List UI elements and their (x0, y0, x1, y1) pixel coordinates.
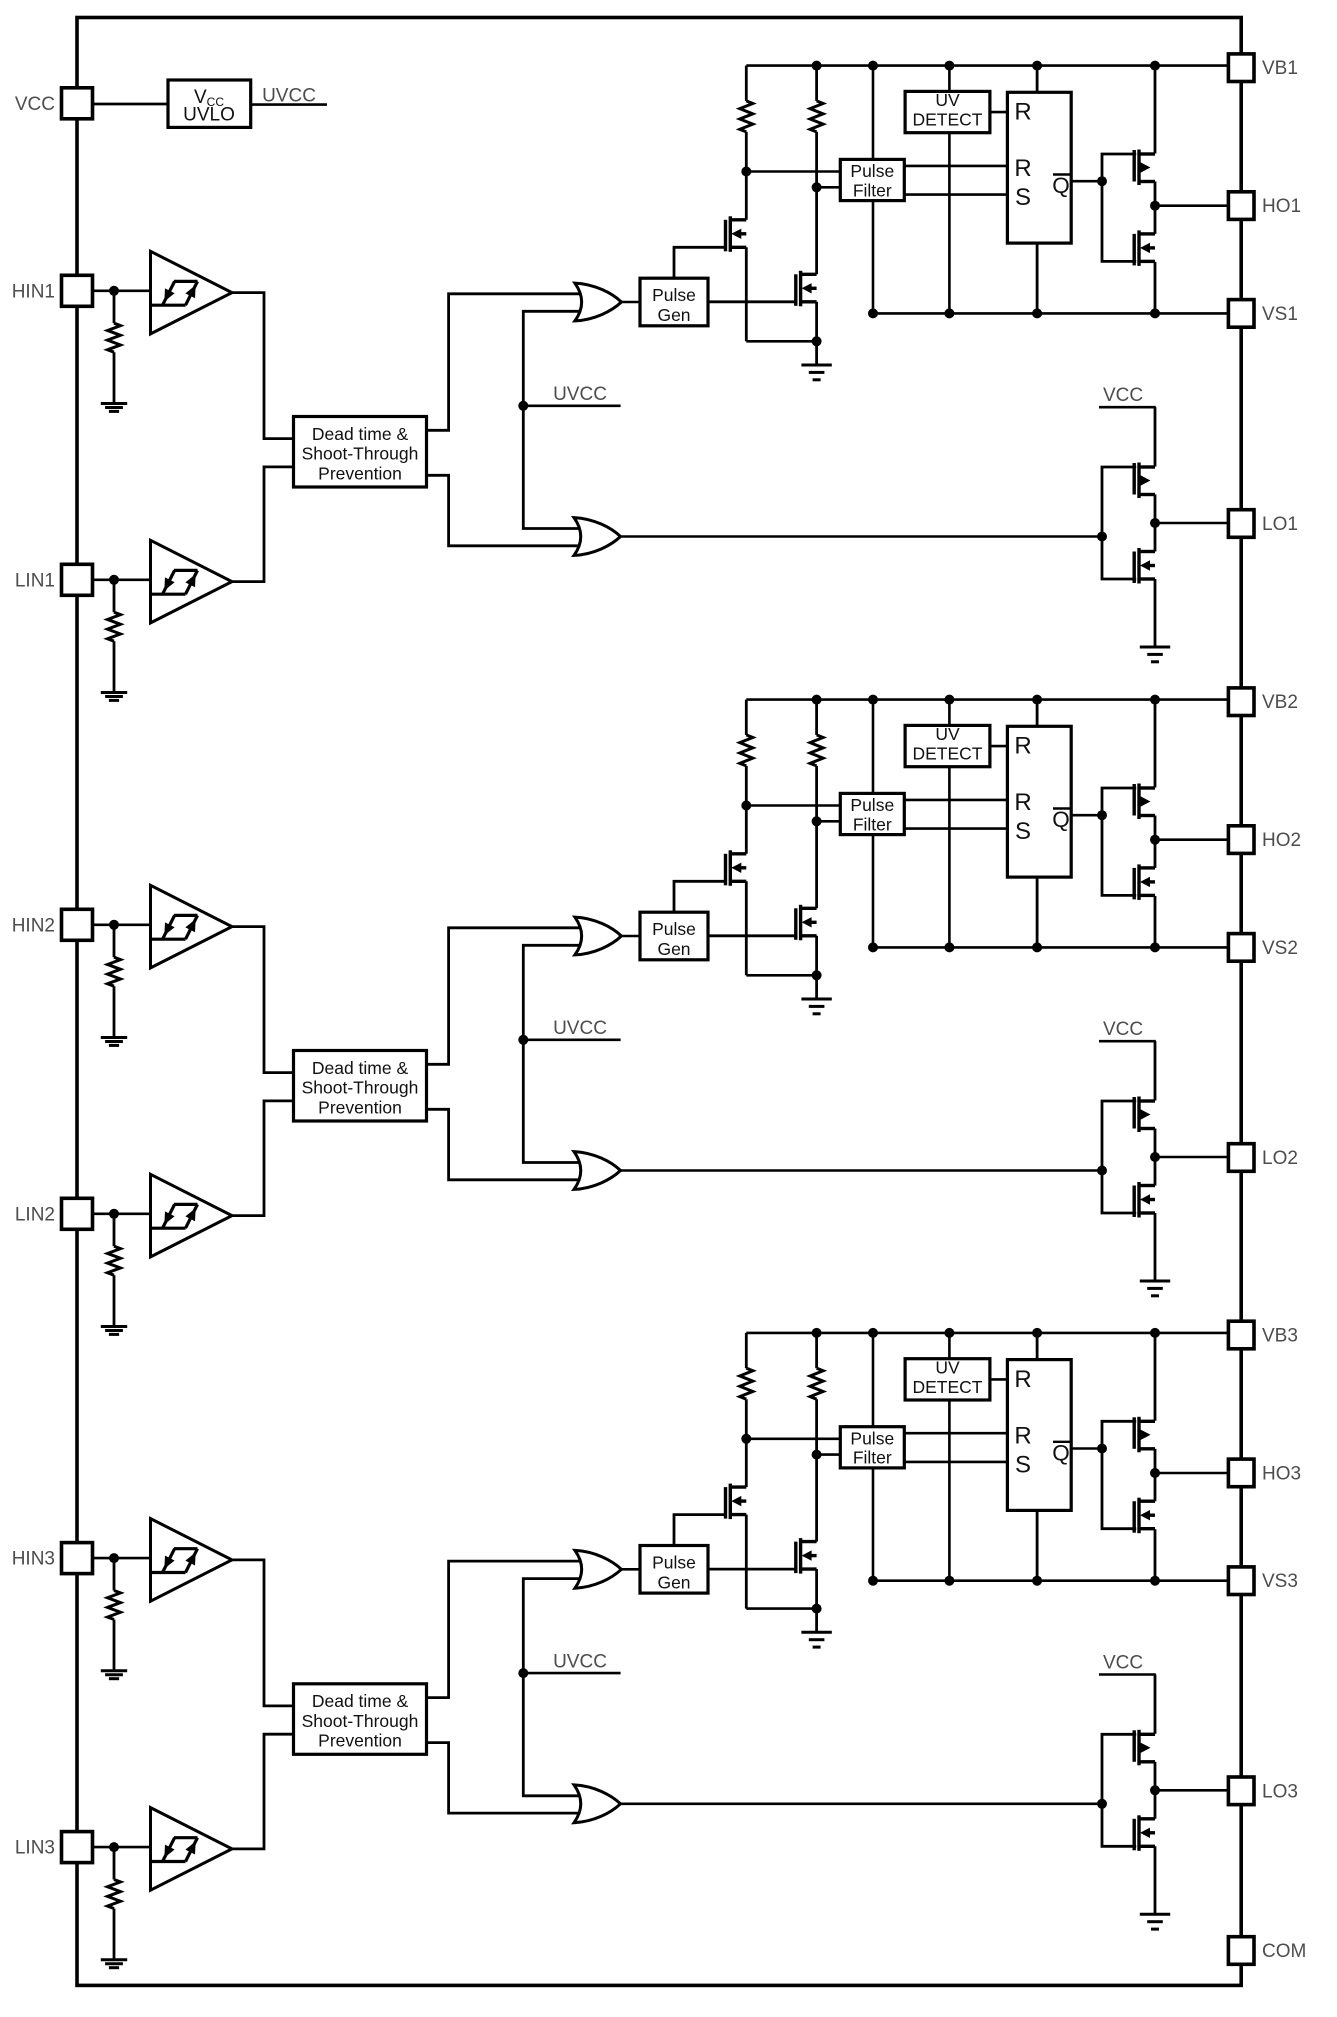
svg-text:R: R (1014, 155, 1031, 182)
pulse generator block (channel 2) (640, 912, 708, 960)
transistor HO1 driver PMOS (1134, 150, 1155, 186)
junction HO2 driver source to VS rail (1150, 942, 1160, 952)
junction HIN2 input node (109, 920, 119, 930)
svg-text:Pulse: Pulse (850, 1428, 894, 1448)
svg-text:S: S (1015, 184, 1031, 211)
junction Qbar to gate bus (1097, 1444, 1107, 1454)
wire VCC supply bar (LO2 driver) (1099, 1040, 1156, 1043)
resistor level-shift load R1a (745, 66, 748, 101)
wire HO3 NMOS source to VS rail (1154, 1529, 1157, 1581)
junction HO1 driver source to VS rail (1150, 308, 1160, 318)
pin HO3 (1228, 1459, 1254, 1487)
wire M2b drain to pulse filter in2 (817, 820, 841, 823)
UV detect block (channel 3) (905, 1359, 990, 1400)
wire UVCC stub (channel 1) (523, 404, 620, 407)
junction LO3 output node (1150, 1785, 1160, 1795)
wire LO1 NMOS source to ground (1154, 579, 1157, 647)
svg-text:Gen: Gen (657, 305, 690, 325)
junction HO3 driver to VB rail (1150, 1328, 1160, 1338)
svg-text:R: R (1014, 1422, 1031, 1449)
wire VCC supply bar (LO3 driver) (1099, 1673, 1156, 1676)
wire HO3 PMOS drain to VB rail (1154, 1333, 1157, 1421)
svg-text:S: S (1015, 818, 1031, 845)
pin LIN2 (62, 1198, 93, 1229)
wire VCC pin to UVLO block (92, 103, 168, 106)
junction latch return to VS rail (1032, 942, 1042, 952)
pin VS2 (1228, 934, 1254, 962)
wire pulse gen to level-shift FET M2a gate (674, 881, 726, 912)
wire LO3 NMOS source to ground (1154, 1846, 1157, 1914)
wire M2a source to common source bus (745, 881, 748, 975)
transistor LO1 driver NMOS (1134, 548, 1155, 584)
wire M2b source to common source bus (815, 936, 818, 976)
wire pulse filter out2 to latch S (channel 3) (904, 1461, 1007, 1464)
wire LO3 output to pin (1155, 1789, 1229, 1792)
junction M2a drain node (741, 801, 751, 811)
svg-text:Prevention: Prevention (318, 1097, 402, 1117)
pin COM (1228, 1937, 1254, 1965)
svg-text:HO1: HO1 (1262, 196, 1301, 217)
pin HO2 (1228, 826, 1254, 854)
wire VB2 rail (746, 698, 1228, 701)
wire VCC supply bar (LO1 driver) (1099, 406, 1156, 409)
wire latch bottom to VS rail (channel 3) (1036, 1510, 1039, 1580)
wire VCC to LO1 PMOS drain (1154, 407, 1157, 466)
svg-text:Q: Q (1052, 173, 1070, 198)
wire HIN3 buffer output to dead-time input 1 (232, 1560, 294, 1706)
junction LIN3 input node (109, 1842, 119, 1852)
junction UVCC tap (channel 1) (518, 401, 528, 411)
ground for LIN2 pulldown (101, 1327, 127, 1335)
wire LIN2 pin to input buffer (92, 1213, 150, 1216)
svg-text:UV: UV (935, 724, 960, 744)
pin LIN3 (62, 1832, 93, 1863)
transistor M1b level-shift NMOS (796, 271, 817, 307)
UV detect block (channel 2) (905, 725, 990, 766)
junction OR B output to LO2 gate bus (1097, 1166, 1107, 1176)
svg-text:COM: COM (1262, 1941, 1306, 1962)
RS latch U1L (channel 1) (1007, 92, 1071, 243)
pin HO1 (1228, 192, 1254, 220)
svg-text:LIN2: LIN2 (15, 1204, 55, 1225)
junction HO2 output node (1150, 835, 1160, 845)
wire dead-time output 1 to OR gate A (channel 2) (427, 928, 587, 1065)
svg-text:UVLO: UVLO (183, 104, 235, 125)
junction M1b drain node (812, 182, 822, 192)
transistor M1a level-shift NMOS (726, 216, 747, 252)
wire LO2 NMOS source to ground (1154, 1213, 1157, 1281)
ground for LIN3 pulldown (101, 1960, 127, 1968)
wire VS1 rail (873, 312, 1229, 315)
wire latch top supply (channel 3) (1036, 1333, 1039, 1360)
wire latch bottom to VS rail (channel 1) (1036, 243, 1039, 313)
wire M3a drain to pulse filter in1 (746, 1438, 840, 1441)
svg-text:UVCC: UVCC (553, 384, 607, 405)
junction UV line to VB rail (944, 695, 954, 705)
wire latch top supply (channel 1) (1036, 66, 1039, 93)
svg-text:VCC: VCC (1103, 1019, 1143, 1040)
wire LIN1 buffer output to dead-time input 2 (232, 467, 294, 582)
wire LO1 output to pin (1155, 522, 1229, 525)
junction UV line to VB rail (944, 1328, 954, 1338)
wire HO1 output to pin (1155, 204, 1229, 207)
pin VS1 (1228, 300, 1254, 328)
svg-text:UV: UV (935, 1357, 960, 1377)
junction latch supply to VB rail (1032, 1328, 1042, 1338)
svg-text:UV: UV (935, 90, 960, 110)
wire latch Qbar to HO driver gate bus (channel 2) (1071, 814, 1102, 817)
junction R1b to VB rail (812, 61, 822, 71)
junction M1a drain node (741, 167, 751, 177)
svg-text:UVCC: UVCC (553, 1651, 607, 1672)
pin VS3 (1228, 1567, 1254, 1595)
svg-text:Shoot-Through: Shoot-Through (302, 444, 419, 464)
resistor level-shift load R2b (815, 700, 818, 735)
wire M3b drain to pulse filter in2 (817, 1453, 841, 1456)
wire LO2 output to pin (1155, 1156, 1229, 1159)
svg-text:Filter: Filter (853, 180, 892, 200)
ground for HIN2 pulldown (101, 1038, 127, 1046)
pulse filter block (channel 2) (840, 793, 904, 834)
wire latch Qbar to HO driver gate bus (channel 1) (1071, 180, 1102, 183)
svg-text:HO3: HO3 (1262, 1463, 1301, 1484)
transistor HO3 driver NMOS (1134, 1498, 1155, 1534)
junction latch return to VS rail (1032, 1576, 1042, 1586)
pin VCC (62, 88, 93, 119)
schmitt buffer U1B (LIN1) (151, 540, 233, 623)
wire M3b source to common source bus (815, 1569, 818, 1609)
OR gate A high-side (channel 3) (575, 1550, 622, 1588)
wire M1b drain to pulse filter in2 (817, 186, 841, 189)
pin VB1 (1228, 54, 1254, 82)
wire pulse gen to level-shift FET M3b gate (708, 1568, 796, 1571)
svg-text:R: R (1014, 733, 1031, 760)
wire UV-detect feed vertical (channel 2) (948, 700, 951, 948)
wire HIN2 pin to input buffer (92, 923, 150, 926)
junction latch supply to VB rail (1032, 695, 1042, 705)
transistor M3b level-shift NMOS (796, 1538, 817, 1574)
wire to level-shift ground (channel 1) (815, 341, 818, 365)
svg-text:Gen: Gen (657, 1573, 690, 1593)
UV detect block (channel 1) (905, 91, 990, 132)
schmitt buffer U1A (HIN1) (151, 251, 233, 334)
pin VB2 (1228, 688, 1254, 716)
wire UVCC net vertical (channel 3) (523, 1579, 586, 1796)
junction M3a drain node (741, 1434, 751, 1444)
wire UVCC stub (channel 3) (523, 1672, 620, 1675)
wire HO3 output node vertical (1154, 1449, 1157, 1501)
pin LO2 (1228, 1144, 1254, 1172)
wire UV detect to latch R (channel 3) (990, 1378, 1008, 1381)
transistor M2b level-shift NMOS (796, 905, 817, 941)
schmitt buffer U3A (HIN3) (151, 1519, 233, 1602)
resistor pulldown on HIN1 (113, 291, 116, 323)
wire OR B output to LO driver gate bus (channel 2) (621, 1169, 1103, 1172)
wire pulse gen to level-shift FET M3a gate (674, 1515, 726, 1546)
junction UVCC tap (channel 3) (518, 1668, 528, 1678)
wire M3a source to common source bus (745, 1515, 748, 1609)
svg-text:Pulse: Pulse (652, 1552, 696, 1572)
wire M2a drain to pulse filter in1 (746, 804, 840, 807)
wire VCC to LO3 PMOS drain (1154, 1675, 1157, 1734)
svg-text:LO3: LO3 (1262, 1781, 1298, 1802)
wire pulse-filter feed vertical (channel 1) (872, 66, 875, 314)
wire to level-shift ground (channel 2) (815, 975, 818, 999)
junction Qbar to gate bus (1097, 810, 1107, 820)
junction vertical to VS rail (868, 308, 878, 318)
wire pulse-filter feed vertical (channel 3) (872, 1333, 875, 1581)
svg-text:Pulse: Pulse (850, 161, 894, 181)
resistor pulldown on HIN3 (113, 1558, 116, 1590)
wire M1a drain to pulse filter in1 (746, 170, 840, 173)
junction R2b to VB rail (812, 695, 822, 705)
resistor level-shift load R2a (745, 700, 748, 735)
junction HO3 driver source to VS rail (1150, 1576, 1160, 1586)
junction HO1 output node (1150, 201, 1160, 211)
svg-text:Prevention: Prevention (318, 463, 402, 483)
transistor LO2 driver PMOS (1134, 1097, 1155, 1133)
dead time & shoot-through prevention block (channel 3) (294, 1684, 427, 1755)
dead time & shoot-through prevention block (channel 2) (294, 1051, 427, 1122)
svg-text:VB3: VB3 (1262, 1326, 1298, 1347)
junction vertical to VS rail (868, 1576, 878, 1586)
OR gate A high-side (channel 2) (575, 917, 622, 955)
resistor pulldown on HIN2 (113, 925, 116, 957)
junction HO3 output node (1150, 1468, 1160, 1478)
wire pulse filter out2 to latch S (channel 1) (904, 193, 1007, 196)
wire HO1 output node vertical (1154, 182, 1157, 234)
schmitt buffer U3B (LIN3) (151, 1808, 233, 1891)
svg-text:VCC: VCC (1103, 1652, 1143, 1673)
svg-text:HIN1: HIN1 (12, 281, 55, 302)
wire HIN1 buffer output to dead-time input 1 (232, 293, 294, 439)
junction vertical to VB rail (868, 695, 878, 705)
wire LIN3 buffer output to dead-time input 2 (232, 1734, 294, 1849)
wire UV-detect feed vertical (channel 3) (948, 1333, 951, 1581)
resistor level-shift load R3b (815, 1333, 818, 1368)
svg-text:VCC: VCC (1103, 385, 1143, 406)
schmitt buffer U2A (HIN2) (151, 885, 233, 968)
svg-text:VB2: VB2 (1262, 692, 1298, 713)
junction HIN3 input node (109, 1553, 119, 1563)
wire pulse gen to level-shift FET M1b gate (708, 300, 796, 303)
wire LIN2 buffer output to dead-time input 2 (232, 1101, 294, 1216)
junction source bus to ground (812, 336, 822, 346)
svg-text:HIN3: HIN3 (12, 1549, 55, 1570)
svg-text:R: R (1014, 99, 1031, 126)
wire LIN3 pin to input buffer (92, 1846, 150, 1849)
wire pulse gen to level-shift FET M2b gate (708, 934, 796, 937)
junction UVCC tap (channel 2) (518, 1035, 528, 1045)
pin HIN2 (62, 909, 93, 940)
transistor LO2 driver NMOS (1134, 1182, 1155, 1218)
junction UV line to VS rail (944, 308, 954, 318)
junction LIN2 input node (109, 1209, 119, 1219)
wire VB1 rail (746, 64, 1228, 67)
svg-text:Shoot-Through: Shoot-Through (302, 1711, 419, 1731)
pin HIN3 (62, 1543, 93, 1574)
transistor M3a level-shift NMOS (726, 1484, 747, 1520)
OR gate A high-side (channel 1) (575, 283, 622, 321)
junction vertical to VB rail (868, 1328, 878, 1338)
svg-text:VS3: VS3 (1262, 1571, 1298, 1592)
pin HIN1 (62, 275, 93, 306)
svg-text:Pulse: Pulse (652, 919, 696, 939)
junction UV line to VB rail (944, 61, 954, 71)
wire VS3 rail (873, 1579, 1229, 1582)
wire level-shift source bus (channel 2) (746, 974, 816, 977)
wire latch bottom to VS rail (channel 2) (1036, 877, 1039, 947)
wire LO2 output node vertical (1154, 1129, 1157, 1186)
svg-text:Gen: Gen (657, 939, 690, 959)
RS latch U3L (channel 3) (1007, 1360, 1071, 1511)
svg-text:Filter: Filter (853, 1448, 892, 1468)
transistor LO1 driver PMOS (1134, 463, 1155, 499)
ground LO2 driver (1140, 1281, 1170, 1296)
junction latch supply to VB rail (1032, 61, 1042, 71)
wire pulse gen to level-shift FET M1a gate (674, 247, 726, 278)
svg-text:DETECT: DETECT (913, 1377, 983, 1397)
pulse generator block (channel 3) (640, 1546, 708, 1594)
junction Qbar to gate bus (1097, 176, 1107, 186)
wire UVCC stub (channel 2) (523, 1039, 620, 1042)
svg-text:S: S (1015, 1451, 1031, 1478)
wire LO3 driver gate bus (1102, 1734, 1136, 1846)
resistor level-shift load R3a (745, 1333, 748, 1368)
wire OR A to pulse gen (channel 2) (621, 935, 640, 938)
svg-text:Pulse: Pulse (652, 285, 696, 305)
resistor pulldown on LIN2 (113, 1214, 116, 1246)
transistor LO3 driver NMOS (1134, 1815, 1155, 1851)
transistor HO1 driver NMOS (1134, 230, 1155, 266)
wire UVCC net vertical (channel 1) (523, 311, 586, 528)
svg-text:Prevention: Prevention (318, 1731, 402, 1751)
wire pulse filter out1 to latch R (channel 1) (904, 165, 1007, 168)
transistor M2a level-shift NMOS (726, 850, 747, 886)
svg-text:VCC: VCC (15, 94, 55, 115)
wire LO2 driver gate bus (1102, 1101, 1136, 1213)
wire OR B output to LO driver gate bus (channel 1) (621, 535, 1103, 538)
wire HO1 PMOS drain to VB rail (1154, 66, 1157, 154)
wire M1b source to common source bus (815, 302, 818, 342)
wire dead-time output 2 to OR gate B (channel 3) (427, 1743, 587, 1814)
wire dead-time output 1 to OR gate A (channel 1) (427, 294, 587, 431)
junction M3b drain node (812, 1450, 822, 1460)
wire HO2 NMOS source to VS rail (1154, 896, 1157, 948)
resistor pulldown on LIN1 (113, 580, 116, 612)
RS latch U2L (channel 2) (1007, 726, 1071, 877)
transistor HO2 driver PMOS (1134, 784, 1155, 820)
svg-text:DETECT: DETECT (913, 110, 983, 130)
pin LIN1 (62, 564, 93, 595)
wire HO3 driver gate bus (1102, 1421, 1136, 1528)
svg-text:UVCC: UVCC (553, 1018, 607, 1039)
svg-text:Filter: Filter (853, 814, 892, 834)
ground LO3 driver (1140, 1914, 1170, 1929)
junction HIN1 input node (109, 286, 119, 296)
pulse filter block (channel 3) (840, 1427, 904, 1468)
wire HO2 output to pin (1155, 838, 1229, 841)
wire LO1 output node vertical (1154, 495, 1157, 552)
ground for HIN3 pulldown (101, 1671, 127, 1679)
wire HIN3 pin to input buffer (92, 1557, 150, 1560)
wire dead-time output 2 to OR gate B (channel 2) (427, 1109, 587, 1180)
wire HO1 NMOS source to VS rail (1154, 262, 1157, 314)
resistor level-shift load R1b (815, 66, 818, 101)
wire LIN1 pin to input buffer (92, 578, 150, 581)
wire to level-shift ground (channel 3) (815, 1609, 818, 1633)
wire HO1 driver gate bus (1102, 154, 1136, 261)
wire UV detect to latch R (channel 2) (990, 745, 1008, 748)
wire latch Qbar to HO driver gate bus (channel 3) (1071, 1447, 1102, 1450)
wire HIN1 pin to input buffer (92, 289, 150, 292)
junction source bus to ground (812, 1604, 822, 1614)
wire HO3 output to pin (1155, 1472, 1229, 1475)
dead time & shoot-through prevention block (channel 1) (294, 417, 427, 488)
OR gate B low-side (channel 3) (574, 1785, 621, 1823)
junction LIN1 input node (109, 575, 119, 585)
wire VS2 rail (873, 946, 1229, 949)
svg-text:Q: Q (1052, 807, 1070, 832)
svg-text:LO1: LO1 (1262, 514, 1298, 535)
wire HO2 driver gate bus (1102, 788, 1136, 895)
schmitt buffer U2B (LIN2) (151, 1174, 233, 1257)
svg-text:VB1: VB1 (1262, 58, 1298, 79)
svg-text:Shoot-Through: Shoot-Through (302, 1078, 419, 1098)
wire level-shift source bus (channel 1) (746, 340, 816, 343)
wire M1a source to common source bus (745, 247, 748, 341)
wire UV detect to latch R (channel 1) (990, 111, 1008, 114)
ground for HIN1 pulldown (101, 404, 127, 412)
wire UV-detect feed vertical (channel 1) (948, 66, 951, 314)
junction M2b drain node (812, 816, 822, 826)
transistor HO3 driver PMOS (1134, 1417, 1155, 1453)
svg-text:R: R (1014, 1366, 1031, 1393)
junction LO1 output node (1150, 518, 1160, 528)
junction latch return to VS rail (1032, 308, 1042, 318)
wire latch top supply (channel 2) (1036, 700, 1039, 727)
svg-text:Dead time &: Dead time & (312, 1691, 409, 1711)
wire dead-time output 2 to OR gate B (channel 1) (427, 475, 587, 546)
wire LO1 driver gate bus (1102, 467, 1136, 579)
wire UVCC net vertical (channel 2) (523, 945, 586, 1162)
svg-text:HO2: HO2 (1262, 830, 1301, 851)
ground LO1 driver (1140, 647, 1170, 662)
Vcc UVLO block (168, 80, 251, 127)
svg-text:Dead time &: Dead time & (312, 1058, 409, 1078)
junction vertical to VB rail (868, 61, 878, 71)
junction vertical to VS rail (868, 942, 878, 952)
ground level-shift (channel 3) (801, 1632, 831, 1647)
svg-text:VS2: VS2 (1262, 938, 1298, 959)
junction R3b to VB rail (812, 1328, 822, 1338)
junction HO2 driver to VB rail (1150, 695, 1160, 705)
OR gate B low-side (channel 1) (574, 518, 621, 556)
svg-text:VS1: VS1 (1262, 304, 1298, 325)
pulse generator block (channel 1) (640, 278, 708, 326)
pulse filter block (channel 1) (840, 159, 904, 200)
svg-text:UVCC: UVCC (262, 86, 316, 107)
ground level-shift (channel 1) (801, 365, 831, 380)
svg-text:DETECT: DETECT (913, 744, 983, 764)
svg-text:Q: Q (1052, 1440, 1070, 1465)
wire UVCC output stub (251, 103, 327, 106)
wire OR A to pulse gen (channel 3) (621, 1568, 640, 1571)
junction OR B output to LO1 gate bus (1097, 532, 1107, 542)
OR gate B low-side (channel 2) (574, 1152, 621, 1190)
wire OR B output to LO driver gate bus (channel 3) (621, 1803, 1103, 1806)
transistor LO3 driver PMOS (1134, 1730, 1155, 1766)
